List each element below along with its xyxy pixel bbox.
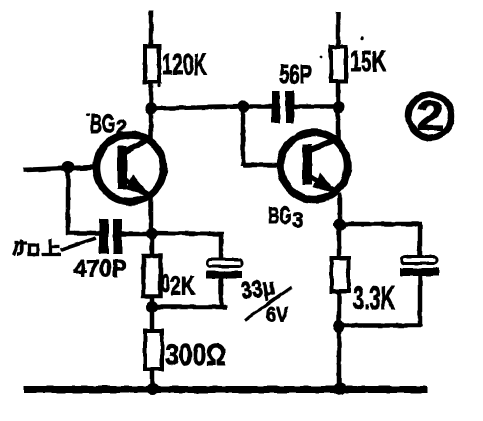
svg-text:120K: 120K xyxy=(162,49,207,82)
svg-text:33μ: 33μ xyxy=(239,273,276,304)
svg-text:BG: BG xyxy=(268,203,291,230)
svg-text:2: 2 xyxy=(116,117,127,139)
svg-text:300Ω: 300Ω xyxy=(165,337,226,372)
svg-text:3.3K: 3.3K xyxy=(353,280,395,316)
svg-text:3: 3 xyxy=(292,209,304,232)
svg-text:470P: 470P xyxy=(74,256,127,283)
svg-text:2K: 2K xyxy=(170,271,195,301)
svg-text:0: 0 xyxy=(161,271,170,298)
svg-text:15K: 15K xyxy=(350,46,386,78)
svg-text:6V: 6V xyxy=(266,304,288,327)
svg-text:BG: BG xyxy=(90,109,115,139)
svg-text:2: 2 xyxy=(416,92,444,139)
svg-text:56P: 56P xyxy=(279,59,312,89)
